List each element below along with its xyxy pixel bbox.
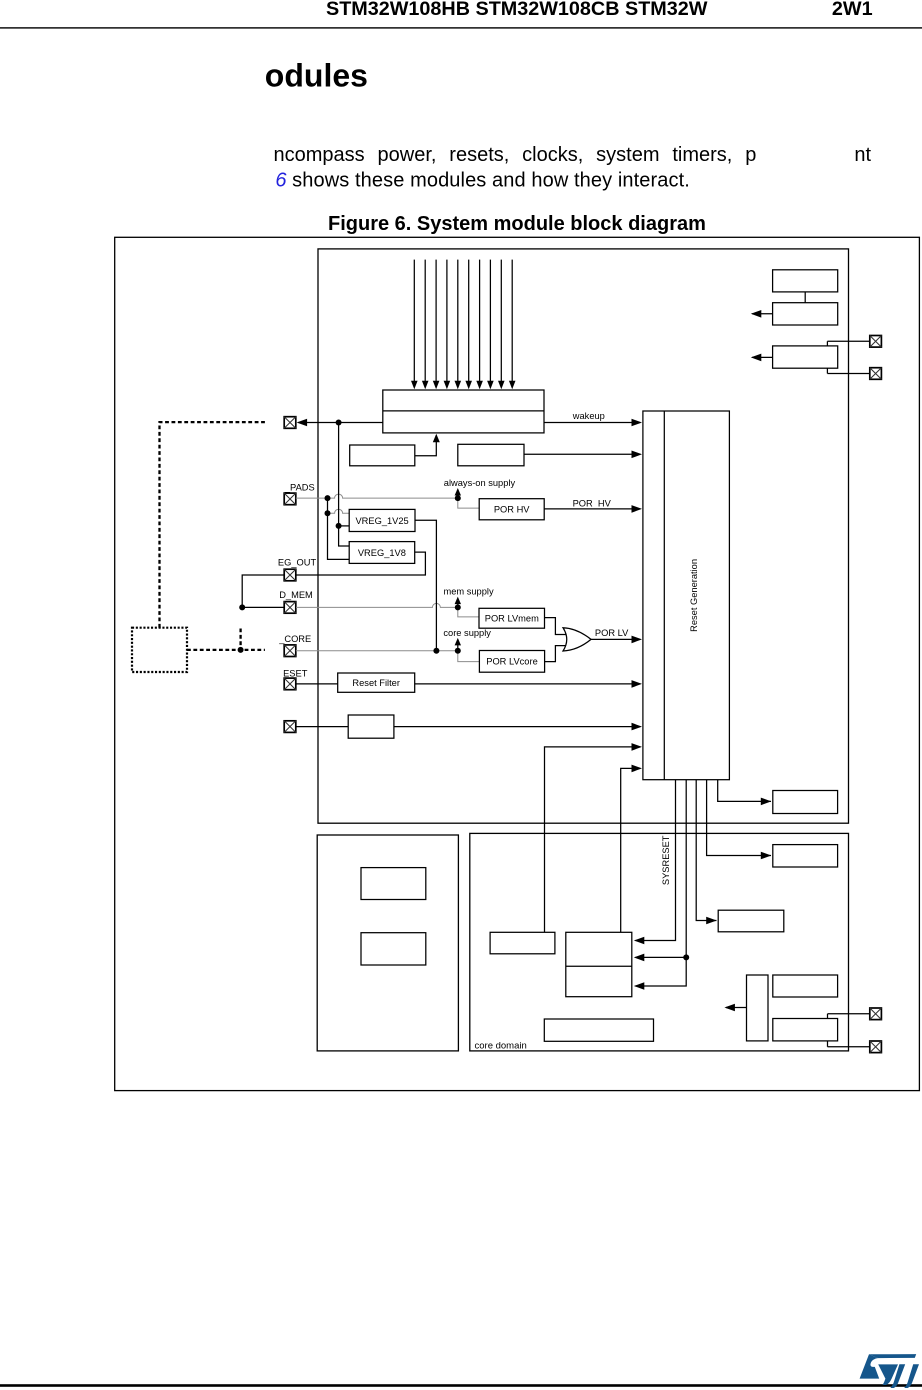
svg-text:mem supply: mem supply — [444, 587, 494, 597]
svg-text:POR HV: POR HV — [494, 505, 530, 515]
svg-text:always-on supply: always-on supply — [444, 478, 516, 488]
svg-text:POR HV: POR HV — [573, 498, 612, 508]
svg-text:6 shows these modules and how: 6 shows these modules and how they inter… — [275, 169, 690, 191]
svg-text:POR LVcore: POR LVcore — [486, 657, 538, 667]
svg-text:odules: odules — [265, 58, 368, 94]
svg-text:core supply: core supply — [443, 628, 491, 638]
svg-text:nt: nt — [854, 144, 871, 166]
svg-text:core domain: core domain — [475, 1040, 527, 1051]
svg-text:_PADS: _PADS — [284, 483, 315, 493]
svg-text:VREG_1V8: VREG_1V8 — [358, 548, 406, 558]
svg-text:_CORE: _CORE — [278, 634, 311, 644]
svg-text:wakeup: wakeup — [572, 411, 605, 421]
svg-text:Reset Generation: Reset Generation — [689, 559, 699, 632]
svg-text:POR LV: POR LV — [595, 628, 629, 638]
svg-text:ESET: ESET — [283, 668, 308, 678]
svg-text:EG_OUT: EG_OUT — [278, 557, 317, 567]
svg-text:STM32W108HB STM32W108CB STM32W: STM32W108HB STM32W108CB STM32W — [326, 0, 708, 20]
svg-text:VREG_1V25: VREG_1V25 — [355, 516, 408, 526]
svg-text:ncompass power, resets, clocks: ncompass power, resets, clocks, system t… — [274, 144, 757, 166]
svg-text:SYSRESET: SYSRESET — [661, 835, 671, 885]
svg-text:POR LVmem: POR LVmem — [485, 614, 539, 624]
svg-text:Reset Filter: Reset Filter — [352, 678, 400, 688]
svg-text:Figure 6. System module block: Figure 6. System module block diagram — [328, 213, 706, 235]
svg-text:D_MEM: D_MEM — [279, 590, 313, 600]
svg-text:2W1: 2W1 — [832, 0, 873, 20]
